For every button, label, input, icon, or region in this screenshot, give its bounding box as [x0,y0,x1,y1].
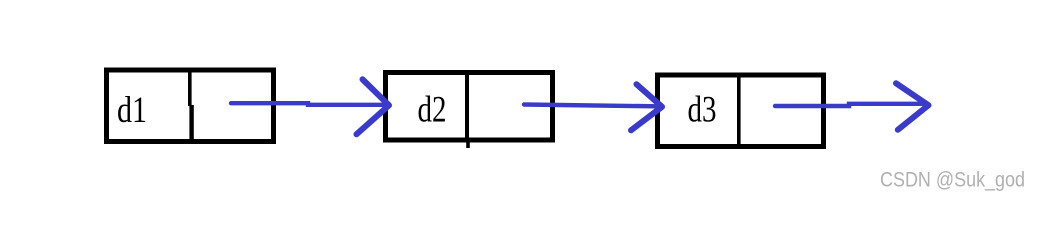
node d3 divider [737,73,741,148]
arrow 3 shaft (d3.next to NULL) [775,104,925,106]
node d3 box [658,75,824,147]
svg-text:CSDN @Suk_god: CSDN @Suk_god [880,168,1025,191]
node d1 label "d1" [117,90,147,131]
svg-text:d3: d3 [688,90,717,131]
node d2 divider [465,70,470,148]
arrow 2 shaft (d2.next to d3) [524,105,657,107]
node d2 box [386,73,553,141]
node d3 label "d3" [688,90,717,131]
watermark CSDN @Suk_god [880,168,1025,191]
node d1 box [107,70,274,142]
arrow 1 shaft (d1.next to d2) [231,103,385,105]
arrow 2 head [631,84,662,130]
svg-text:d2: d2 [418,90,447,131]
node d2 label "d2" [418,90,447,131]
node d1 divider [188,68,194,145]
svg-text:d1: d1 [117,90,147,131]
arrow 1 head [357,79,390,134]
arrow 3 head [896,83,929,130]
